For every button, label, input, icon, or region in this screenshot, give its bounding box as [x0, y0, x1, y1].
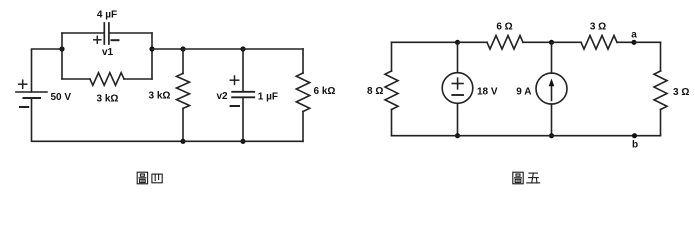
svg-text:9 A: 9 A	[516, 87, 531, 98]
resistor R2 3 kOhm vertical	[177, 73, 190, 108]
node junction left of parallel box	[59, 46, 64, 51]
node junction right of parallel box	[149, 46, 154, 51]
wire parallel box left edge	[61, 33, 63, 79]
resistor R5 6 Ohm	[487, 36, 523, 50]
caption Figure 4 glyph TU (drawn)	[137, 172, 147, 184]
node junction V2 top	[455, 40, 460, 45]
current source I1 9 A	[536, 42, 567, 135]
caption Figure 4 glyph SI (drawn)	[152, 174, 162, 183]
svg-text:3 kΩ: 3 kΩ	[97, 93, 119, 104]
wire mid rail segment 1	[152, 48, 183, 50]
wire top rail left segment	[392, 41, 458, 43]
I1 arrow	[549, 79, 555, 101]
capacitor C1 4 uF	[104, 23, 109, 44]
node junction I1 top	[549, 40, 554, 45]
wire battery top to node	[32, 49, 63, 92]
resistor R3 6 kOhm vertical	[296, 73, 309, 112]
node junction at C2 top	[240, 46, 245, 51]
wire C2 top stub	[242, 49, 244, 92]
node b	[632, 133, 637, 138]
wire top rail right corner	[634, 41, 661, 43]
wire bottom branch right	[124, 78, 152, 80]
node junction V2 bottom	[455, 133, 460, 138]
capacitor C1 minus polarity	[112, 39, 119, 41]
svg-text:8 Ω: 8 Ω	[367, 86, 383, 97]
wire left edge bottom stub	[391, 110, 393, 136]
wire right edge top stub	[660, 42, 662, 71]
wire top branch left	[62, 32, 104, 34]
capacitor C2 minus polarity	[231, 105, 239, 107]
svg-text:18 V: 18 V	[477, 87, 498, 98]
svg-text:6 kΩ: 6 kΩ	[314, 86, 336, 97]
wire mid rail segment 3	[243, 48, 303, 50]
node junction at R2 bottom	[180, 139, 185, 144]
svg-text:1 µF: 1 µF	[258, 91, 278, 102]
node junction I1 bottom	[549, 133, 554, 138]
battery minus polarity	[20, 106, 28, 108]
wire battery bottom rail	[32, 98, 184, 141]
wire R3 bottom stub	[302, 112, 304, 142]
capacitor C2 plus polarity	[230, 76, 238, 84]
battery plus polarity	[19, 80, 27, 88]
wire left edge top stub	[391, 42, 393, 71]
resistor R4 8 Ohm	[385, 71, 398, 110]
wire top rail to node a	[617, 41, 634, 43]
capacitor C1 plus polarity	[94, 36, 101, 43]
battery V1 50 V	[16, 92, 47, 98]
svg-text:6 Ω: 6 Ω	[496, 22, 512, 33]
capacitor C2 1 uF	[232, 92, 254, 98]
svg-text:3 kΩ: 3 kΩ	[149, 90, 171, 101]
caption Figure 5 glyph TU (drawn)	[513, 172, 523, 184]
node junction at R2 top	[180, 46, 185, 51]
svg-text:3 Ω: 3 Ω	[590, 22, 606, 33]
node junction at C2 bottom	[240, 139, 245, 144]
node a	[631, 40, 636, 45]
svg-text:v2: v2	[216, 91, 228, 102]
wire bottom rail	[392, 135, 661, 137]
resistor R6 3 Ohm	[581, 36, 617, 50]
resistor R1 3 kOhm horizontal	[90, 73, 124, 86]
wire top rail to I1	[523, 41, 552, 43]
wire parallel box right edge	[151, 33, 153, 79]
wire mid rail segment 2	[183, 48, 243, 50]
svg-text:50 V: 50 V	[51, 92, 72, 103]
wire bottom rail right part	[183, 140, 303, 142]
wire top rail to R6	[552, 41, 582, 43]
wire R3 top stub	[302, 49, 304, 73]
svg-text:4 µF: 4 µF	[97, 10, 117, 21]
V2 minus polarity	[452, 94, 463, 96]
resistor R7 3 Ohm vertical	[654, 71, 667, 110]
voltage source V2 18 V	[442, 42, 473, 135]
svg-text:v1: v1	[102, 47, 114, 58]
wire C2 bottom stub	[242, 97, 244, 141]
wire top rail to R5	[458, 41, 488, 43]
svg-text:3 Ω: 3 Ω	[673, 87, 689, 98]
wire right edge bottom stub	[660, 110, 662, 136]
wire top branch right	[110, 32, 152, 34]
wire R2 top stub	[182, 49, 184, 73]
V2 plus polarity	[452, 78, 463, 89]
wire bottom branch left	[62, 78, 90, 80]
svg-text:a: a	[631, 30, 637, 41]
caption Figure 5 glyph WU (drawn)	[527, 173, 540, 183]
svg-text:b: b	[632, 140, 638, 151]
wire R2 bottom stub	[182, 108, 184, 141]
